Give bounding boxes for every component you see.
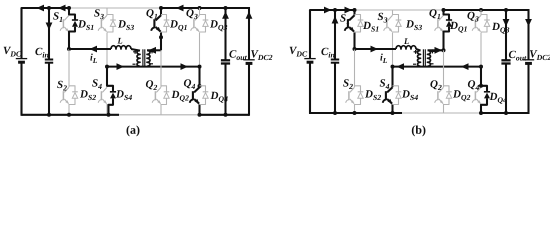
transistor Q3 (b) bbox=[480, 10, 482, 15]
arrow: top rail current 2 (b) bbox=[345, 7, 353, 14]
diode D_Q2 (b) bbox=[444, 86, 450, 92]
capacitor C_out (a) bbox=[224, 8, 226, 60]
arrow: V_DC2 branch current (b) bbox=[525, 19, 532, 27]
node: Q3 top (a) bbox=[198, 6, 202, 10]
transistor Q3 (a) bbox=[199, 8, 201, 15]
label Q4 (a) bbox=[184, 79, 195, 89]
wire: mid rail to inductor (a) bbox=[69, 48, 111, 50]
wire: inductor to transformer (a) bbox=[131, 49, 140, 51]
node: C_in bottom (b) bbox=[333, 111, 337, 115]
wire: top rail left bold section (a) bbox=[22, 8, 70, 9]
wire: bottom rail bold left section (a) bbox=[22, 114, 120, 116]
arrow: lower rail current 2 (b) bbox=[461, 63, 469, 70]
wire: top rail right bold section (a) bbox=[161, 7, 249, 9]
node: C_in bottom (a) bbox=[47, 113, 51, 117]
label D_Q1 (b) bbox=[450, 22, 467, 33]
arrow: lower rail current 1 (b) bbox=[397, 63, 405, 70]
node: Q3-Q4 midpoint (b) bbox=[479, 65, 483, 69]
label Q2 (a) bbox=[146, 80, 157, 90]
label D_Q2 (b) bbox=[453, 90, 470, 101]
arrow: top rail current 1 (a) bbox=[37, 5, 45, 12]
transistor S4 bold conducting (b) bbox=[391, 67, 393, 88]
wire: secondary top to Q leg (a) bbox=[147, 49, 161, 51]
polarity - secondary (a) bbox=[150, 63, 153, 65]
node: Q4 collector junction (a) bbox=[198, 84, 202, 88]
node: C_in top (b) bbox=[333, 8, 337, 12]
node: C_out top (a) bbox=[224, 6, 228, 10]
wire: top rail right bold section (b) bbox=[444, 9, 529, 11]
diode D_S1 (b) bbox=[355, 15, 361, 21]
transformer core (b) bbox=[422, 49, 424, 67]
label L (b) bbox=[404, 38, 409, 44]
arrow: V_DC2 branch current (a) bbox=[246, 11, 253, 19]
label V_DC2 (b) bbox=[530, 50, 550, 60]
label V_DC (b) bbox=[290, 47, 308, 57]
transistor S2 (b) bbox=[354, 49, 356, 87]
wire: bottom rail bold right section (a) bbox=[200, 114, 250, 116]
label S3 (a) bbox=[94, 9, 104, 19]
transistor Q2 (b) bbox=[443, 50, 445, 87]
node: Q1 top (b) bbox=[442, 8, 446, 12]
arrow: top rail current 1 (b) bbox=[324, 7, 332, 14]
transistor S1 (a) bbox=[64, 15, 69, 20]
transformer primary winding (a) bbox=[137, 50, 140, 66]
wire: top rail gray middle section (a) bbox=[69, 7, 161, 9]
label D_S1 (a) bbox=[78, 20, 93, 30]
label D_Q4 (b) bbox=[489, 93, 506, 104]
label S1 (a) bbox=[53, 12, 62, 22]
label Q4 (b) bbox=[468, 80, 479, 90]
label S4 (b) bbox=[380, 79, 390, 89]
label D_S2 (a) bbox=[80, 90, 96, 100]
label S4 (a) bbox=[92, 79, 102, 89]
transistor S4 (a) bbox=[102, 87, 107, 92]
label S2 (b) bbox=[343, 79, 353, 89]
polarity - primary (a) bbox=[133, 63, 136, 65]
label C_out (b) bbox=[509, 51, 527, 61]
transformer primary winding (b) bbox=[418, 50, 421, 66]
label D_S4 (a) bbox=[116, 90, 132, 100]
node: Q4 bottom (b) bbox=[479, 111, 483, 115]
diode D_S1 bold conducting (a) bbox=[69, 8, 75, 20]
diode D_S3 (b) bbox=[393, 15, 399, 21]
polarity - secondary (b) bbox=[431, 63, 434, 65]
label C_in (b) bbox=[321, 48, 334, 58]
capacitor C_in (b) bbox=[334, 10, 336, 60]
wire: Q leg midpoint vertical (b) bbox=[442, 37, 444, 50]
node: S1 top (a) bbox=[67, 6, 71, 10]
node: C_out top (b) bbox=[504, 8, 508, 12]
label S2 (a) bbox=[57, 81, 67, 91]
arrow: secondary current (a) bbox=[149, 47, 157, 54]
node: S1 top (b) bbox=[353, 8, 357, 12]
label L (a) bbox=[117, 38, 122, 44]
label D_S3 (a) bbox=[118, 20, 134, 30]
label S3 (b) bbox=[378, 13, 388, 23]
label Q3 (a) bbox=[186, 9, 197, 19]
node: S3-S4 midpoint (b) bbox=[391, 65, 395, 69]
wire: top rail left bold section (b) bbox=[310, 10, 355, 11]
label Q3 (b) bbox=[467, 12, 478, 22]
transistor S1 bold conducting (b) bbox=[353, 10, 355, 15]
diode D_S4 bold conducting (a) bbox=[107, 67, 113, 92]
node: Q1 emitter junction (a) bbox=[159, 35, 163, 39]
node: C_out bottom (a) bbox=[224, 113, 228, 117]
label C_in (a) bbox=[35, 48, 48, 58]
polarity + primary (a) bbox=[133, 51, 137, 53]
wire: lower rail (b) bbox=[393, 66, 482, 68]
node: Q3 top (b) bbox=[479, 8, 483, 12]
label Q1 (b) bbox=[429, 9, 440, 19]
diode D_S4 (b) bbox=[393, 86, 399, 92]
label C_out (a) bbox=[229, 50, 247, 60]
transistor S3 (a) bbox=[106, 8, 108, 15]
node: Q4 bottom (a) bbox=[198, 113, 202, 117]
label D_Q3 (b) bbox=[492, 23, 509, 34]
transformer secondary winding (b) bbox=[428, 50, 431, 66]
label D_S2 (b) bbox=[365, 90, 381, 100]
label D_S4 (b) bbox=[402, 90, 418, 100]
transistor S2 (a) bbox=[68, 49, 70, 87]
arrow: C_out branch current (b) bbox=[503, 19, 510, 27]
battery V_DC2 (b) bbox=[527, 9, 529, 60]
node: S1-S2 midpoint (b) bbox=[353, 47, 357, 51]
arrow: secondary current (b) bbox=[435, 47, 443, 54]
wire: top rail gray middle section (b) bbox=[355, 9, 444, 11]
transformer core (a) bbox=[142, 49, 144, 67]
arrow: top rail current 3 (a) bbox=[176, 5, 184, 12]
wire: secondary top to Q leg (b) bbox=[428, 49, 444, 51]
polarity + secondary (b) bbox=[431, 50, 435, 52]
label Q1 (a) bbox=[146, 9, 157, 19]
wire: bottom rail gray middle section (b) bbox=[402, 112, 481, 114]
diode D_Q2 (a) bbox=[161, 86, 167, 92]
battery V_DC (a) bbox=[20, 8, 22, 59]
arrow: C_in branch current (a) bbox=[46, 23, 53, 31]
transistor Q1 (b) bbox=[439, 15, 444, 20]
transformer secondary winding (a) bbox=[147, 50, 150, 66]
label i_L (b) bbox=[380, 54, 387, 63]
polarity + primary (b) bbox=[414, 51, 418, 53]
label D_S1 (b) bbox=[363, 22, 378, 32]
diode D_Q3 (a) bbox=[200, 15, 206, 21]
transistor S3 (b) bbox=[392, 10, 394, 15]
polarity - primary (b) bbox=[413, 63, 416, 65]
node: S4 bottom (b) bbox=[391, 111, 395, 115]
label S1 (b) bbox=[340, 14, 349, 24]
arrow: inductor current i_L (a) bbox=[90, 46, 98, 53]
diode D_S3 (a) bbox=[107, 15, 113, 21]
label D_S3 (b) bbox=[406, 20, 422, 30]
node: C_out bottom (b) bbox=[504, 111, 508, 115]
diode D_Q1 (a) bbox=[161, 15, 167, 21]
diode D_Q4 bold conducting (b) bbox=[481, 67, 487, 92]
diode D_Q4 (a) bbox=[200, 86, 206, 92]
inductor L (b) bbox=[396, 46, 416, 49]
battery V_DC (b) bbox=[309, 10, 311, 59]
arrow: lower rail current 1 (a) bbox=[117, 63, 125, 70]
wire: bottom rail gray middle section (a) bbox=[119, 114, 200, 116]
caption (b) bbox=[412, 125, 426, 136]
wire: inductor to transformer (b) bbox=[416, 49, 421, 51]
battery V_DC2 (a) bbox=[248, 7, 250, 60]
wire: Q leg midpoint vertical (a) bbox=[160, 37, 162, 50]
transistor Q4 bold conducting (a) bbox=[198, 67, 200, 88]
transistor Q1 bold conducting (a) bbox=[160, 8, 162, 15]
capacitor C_in (a) bbox=[48, 8, 50, 60]
label D_Q2 (a) bbox=[171, 91, 188, 102]
wire: bottom rail bold right section (b) bbox=[481, 112, 529, 114]
arrow: C_out branch current (a) bbox=[222, 11, 229, 19]
diode D_Q3 (b) bbox=[481, 15, 487, 21]
node: C_in top (a) bbox=[47, 6, 51, 10]
node: S2 bottom (b) bbox=[353, 111, 357, 115]
arrow: top rail current 2 (a) bbox=[58, 5, 66, 12]
node: S4 bottom (a) bbox=[107, 113, 111, 117]
capacitor C_out (b) bbox=[505, 10, 507, 60]
transistor Q4 (b) bbox=[476, 87, 481, 92]
polarity + secondary (a) bbox=[150, 50, 154, 52]
label i_L (a) bbox=[90, 54, 97, 63]
node: S2 bottom (a) bbox=[67, 113, 71, 117]
wire: bottom rail bold left section (b) bbox=[310, 112, 402, 114]
diode D_Q1 bold conducting (b) bbox=[444, 10, 450, 20]
node: Q4 collector junction (b) bbox=[479, 84, 483, 88]
label D_Q4 (a) bbox=[210, 92, 227, 103]
node: S1-S2 midpoint (a) bbox=[67, 47, 71, 51]
arrow: inductor current i_L (b) bbox=[371, 46, 379, 53]
wire: mid rail to inductor (b) bbox=[355, 48, 397, 50]
label D_Q3 (a) bbox=[210, 20, 227, 31]
node: Q1 emitter junction (b) bbox=[442, 48, 446, 52]
label V_DC (a) bbox=[4, 47, 22, 57]
node: Q1 top (a) bbox=[159, 6, 163, 10]
node: S3-S4 midpoint (a) bbox=[105, 65, 109, 69]
label V_DC2 (a) bbox=[251, 50, 272, 60]
arrow: C_in branch current (b) bbox=[332, 16, 339, 24]
arrow: lower rail current 2 (a) bbox=[181, 63, 189, 70]
transistor Q2 (a) bbox=[160, 50, 162, 87]
label Q2 (b) bbox=[430, 80, 441, 90]
diode D_S2 (a) bbox=[69, 86, 75, 92]
diode D_S2 (b) bbox=[355, 86, 361, 92]
caption (a) bbox=[127, 125, 140, 136]
label D_Q1 (a) bbox=[170, 20, 187, 31]
inductor L (a) bbox=[111, 46, 131, 49]
node: Q3-Q4 midpoint (a) bbox=[198, 65, 202, 69]
wire: lower rail (a) bbox=[107, 66, 200, 68]
